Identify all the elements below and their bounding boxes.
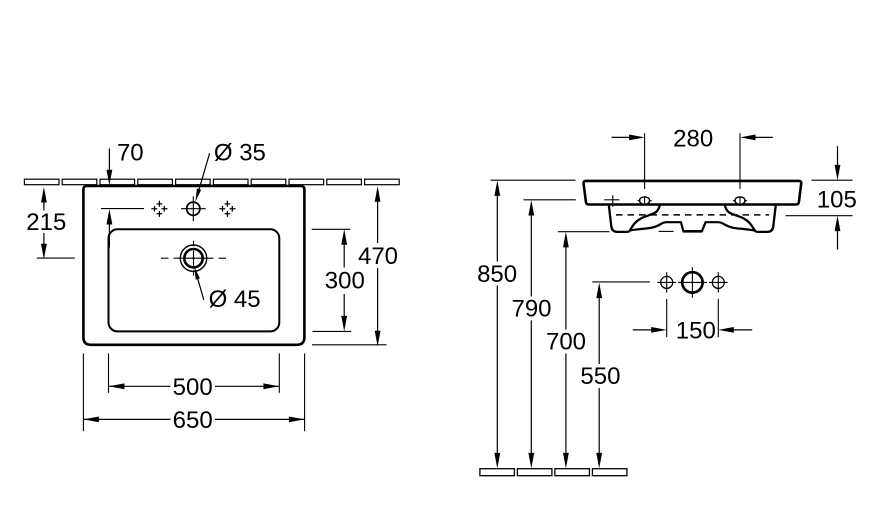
dimension 280	[644, 133, 646, 189]
svg-text:850: 850	[477, 261, 517, 288]
svg-text:Ø 45: Ø 45	[209, 286, 261, 313]
underside right foot and sweep	[725, 205, 776, 232]
svg-text:790: 790	[511, 296, 551, 323]
dimension 70	[108, 149, 110, 173]
svg-text:215: 215	[26, 209, 66, 236]
leader line Ø 35	[198, 153, 210, 194]
dimension 790	[530, 212, 532, 296]
tap-hole horizontal centreline	[101, 208, 144, 210]
svg-text:Ø 35: Ø 35	[214, 139, 266, 166]
svg-text:300: 300	[325, 268, 365, 295]
underside bottom contour and drain tab	[630, 222, 756, 231]
mounting hole right	[712, 276, 724, 288]
svg-text:280: 280	[673, 126, 713, 153]
hidden front edge tick	[604, 199, 619, 201]
dimension 850	[496, 193, 498, 262]
svg-text:550: 550	[580, 363, 620, 390]
fixing hole left	[640, 197, 650, 204]
svg-text:470: 470	[358, 243, 398, 270]
supply hole centre	[682, 272, 702, 292]
dimension 470	[377, 199, 379, 244]
dimension 550	[598, 295, 600, 364]
svg-text:150: 150	[676, 317, 716, 344]
underside left foot and sweep	[609, 205, 660, 232]
drain hole Ø45	[180, 245, 206, 271]
hidden inner bottom (dashed)	[616, 214, 769, 216]
optional tap hole marker right	[226, 201, 228, 207]
dimension 650	[83, 418, 170, 420]
inner bowl outline	[109, 229, 280, 331]
svg-text:700: 700	[546, 329, 586, 356]
leader line Ø 45	[197, 276, 204, 300]
washbasin outer outline (top view)	[83, 186, 304, 345]
svg-text:500: 500	[173, 374, 213, 401]
dimension 150	[666, 299, 668, 337]
dimension 700	[565, 244, 567, 329]
svg-text:105: 105	[817, 187, 857, 214]
dimension 215	[43, 199, 45, 211]
washbasin rim block (front view)	[584, 181, 802, 205]
svg-text:70: 70	[117, 139, 144, 166]
tap hole Ø35	[187, 202, 200, 215]
drain tab bottom edge	[683, 230, 702, 233]
floor tile strip	[480, 469, 515, 476]
mounting hole left	[661, 276, 673, 288]
optional tap hole marker left	[158, 201, 160, 207]
fixing hole right	[735, 197, 745, 204]
wall tile strip (top view)	[24, 179, 59, 185]
dimension 500	[109, 385, 171, 387]
svg-text:650: 650	[173, 407, 213, 434]
dimension 300	[343, 241, 345, 268]
dimension 105	[812, 179, 853, 181]
